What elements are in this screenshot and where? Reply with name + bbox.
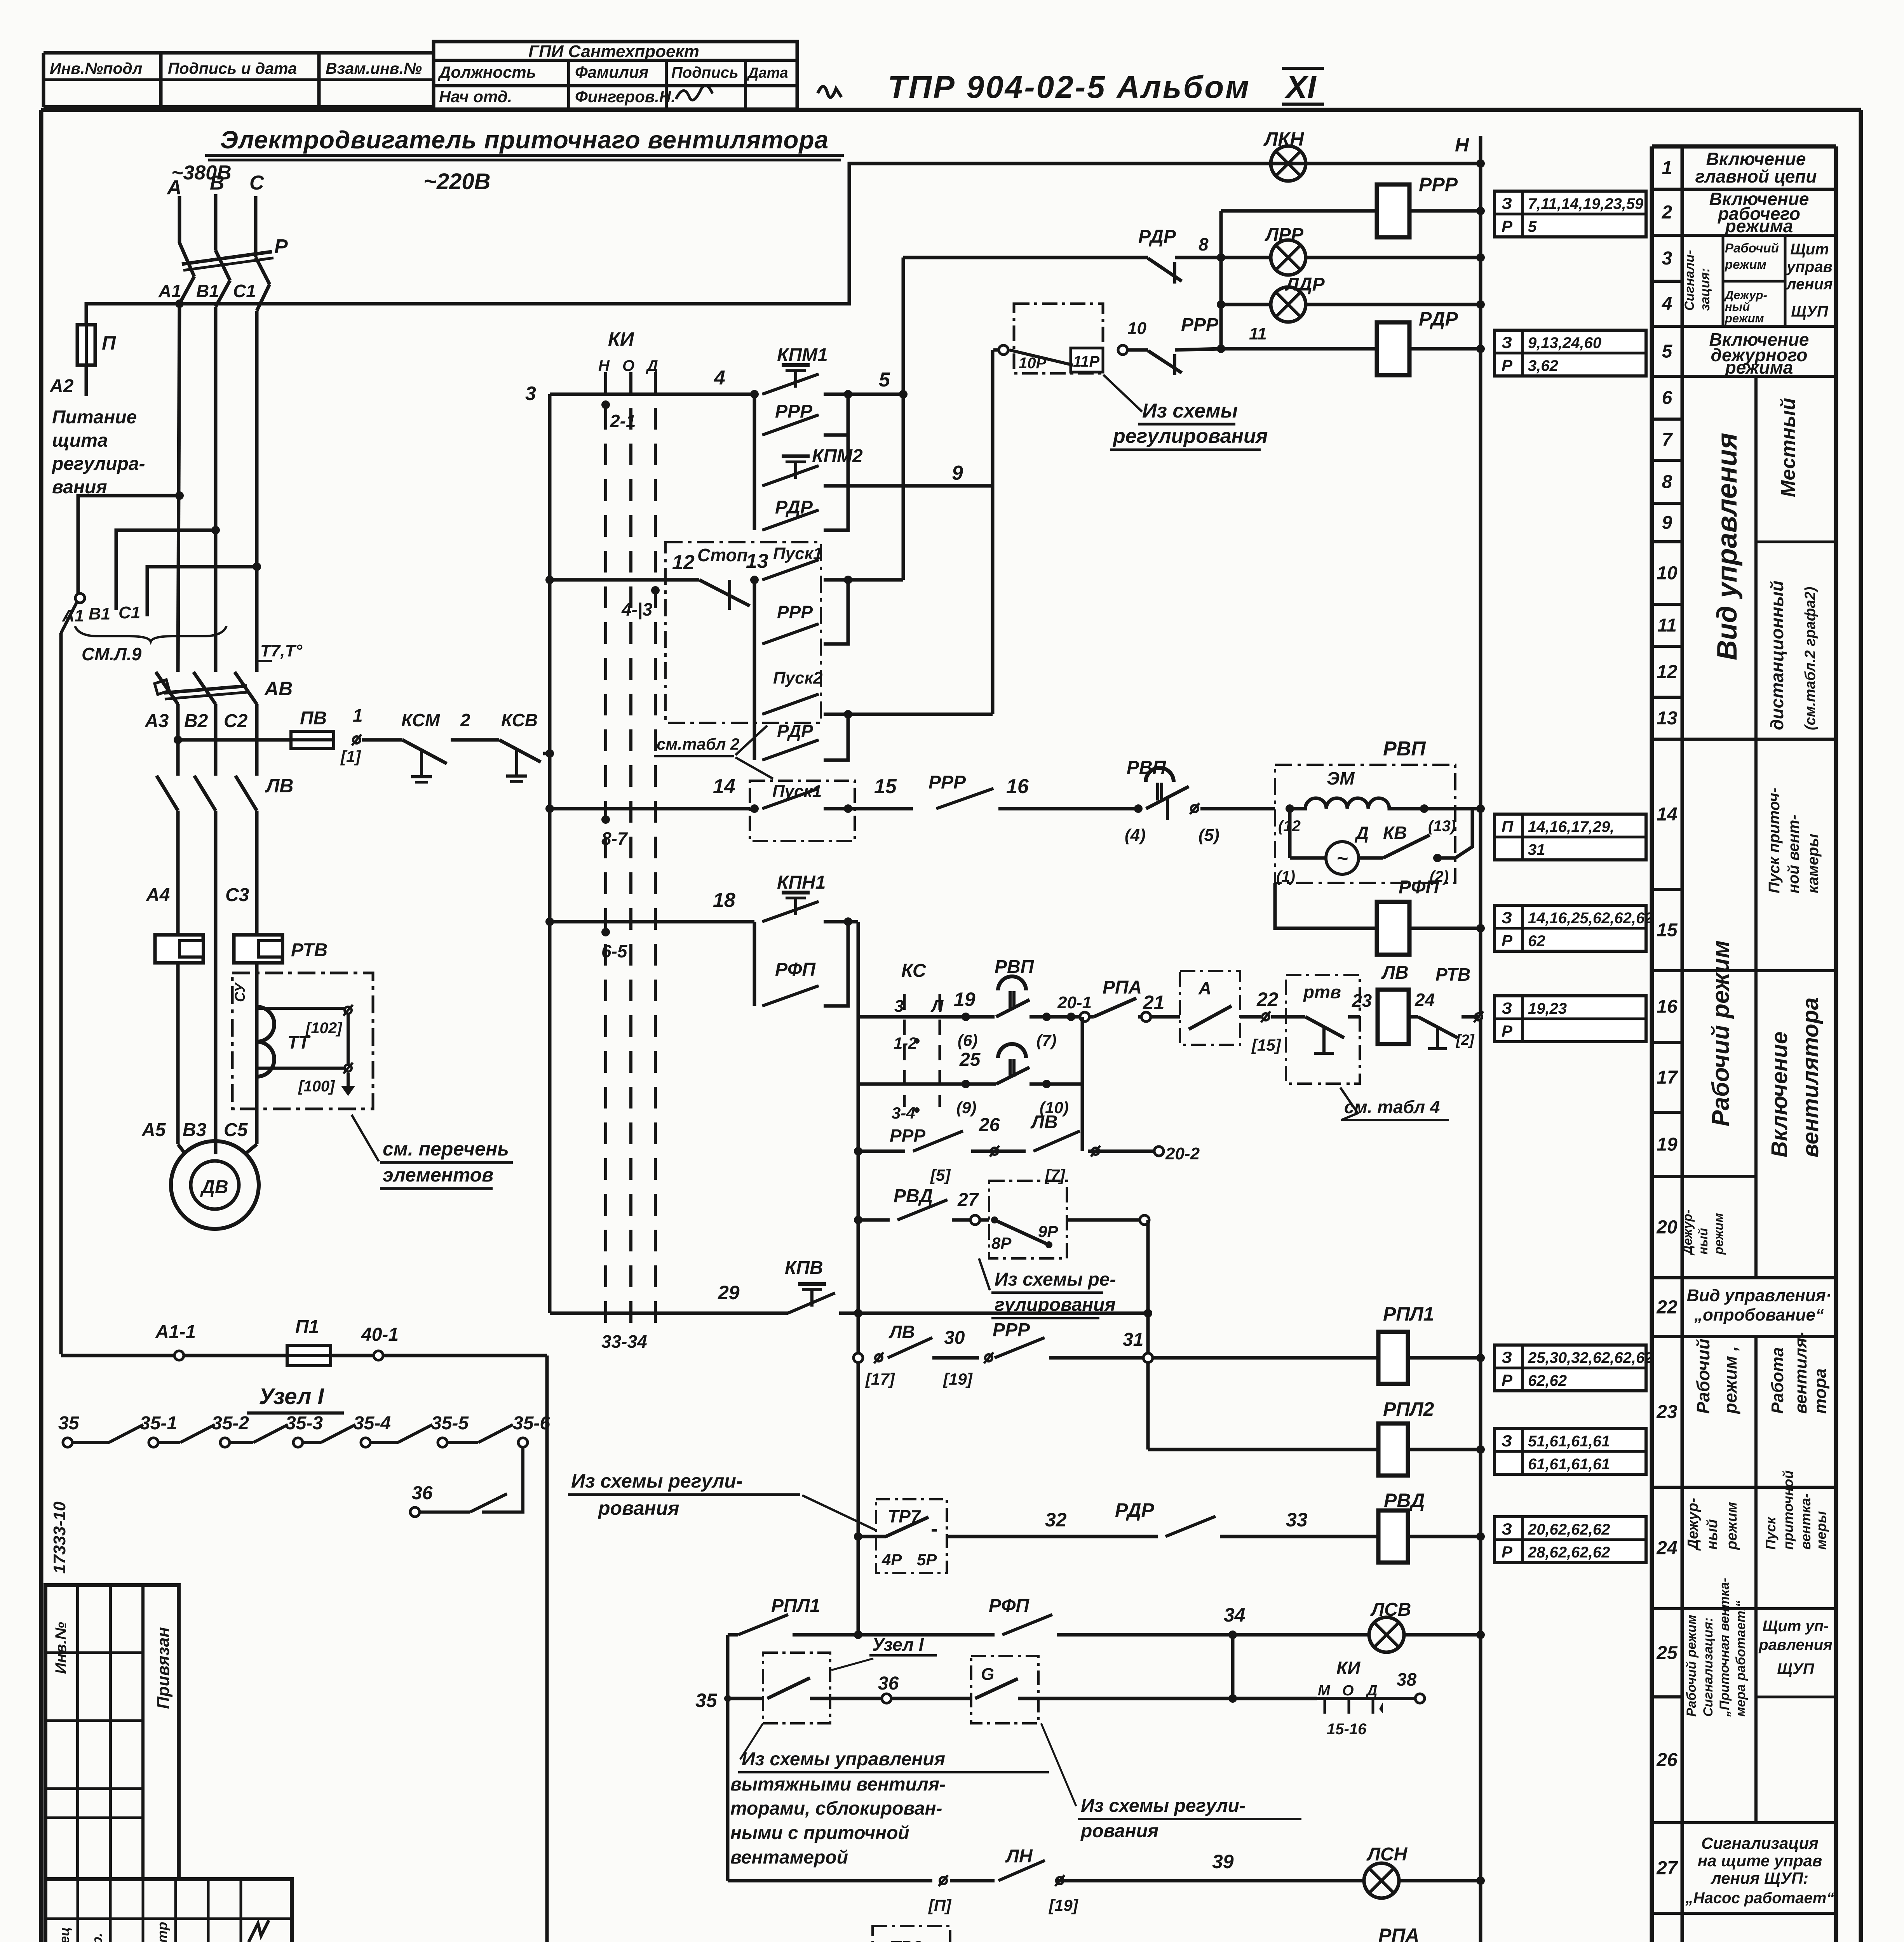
terminals 8P 9P box: [989, 1181, 1067, 1258]
mode table right side: [1650, 146, 1654, 1942]
svg-text:9: 9: [1662, 513, 1672, 533]
device rtv box with t-contact: [1286, 975, 1360, 1084]
svg-text:Л: Л: [930, 997, 944, 1016]
svg-text:РДР: РДР: [1419, 308, 1458, 330]
svg-text:6-5: 6-5: [601, 941, 628, 961]
svg-text:С2: С2: [224, 711, 248, 731]
svg-text:35-5: 35-5: [431, 1413, 469, 1434]
svg-text:КПН1: КПН1: [777, 872, 826, 893]
svg-text:РФП: РФП: [1399, 877, 1439, 898]
fuse P supply: [77, 325, 95, 365]
RVP motor D: [1288, 809, 1292, 858]
svg-text:6: 6: [1662, 388, 1672, 408]
svg-text:В1: В1: [89, 604, 110, 623]
svg-text:33-34: 33-34: [601, 1331, 647, 1352]
svg-text:Р: Р: [1502, 217, 1513, 235]
svg-text:З: З: [1502, 333, 1512, 352]
svg-text:на щите управ: на щите управ: [1698, 1852, 1822, 1870]
svg-text:20-2: 20-2: [1165, 1144, 1200, 1163]
svg-text:27: 27: [957, 1190, 979, 1210]
tap A1 wire: [78, 496, 179, 595]
svg-text:[102]: [102]: [305, 1020, 343, 1037]
svg-text:2: 2: [460, 710, 470, 730]
svg-text:9: 9: [952, 462, 963, 484]
svg-text:Сигнали-: Сигнали-: [1682, 250, 1697, 311]
svg-text:Рабочий режим: Рабочий режим: [1684, 1615, 1699, 1717]
svg-text:Н: Н: [598, 357, 610, 374]
svg-text:23: 23: [1352, 990, 1372, 1011]
svg-text:51,61,61,61: 51,61,61,61: [1528, 1433, 1610, 1450]
svg-text:РДР: РДР: [1115, 1499, 1155, 1521]
svg-text:39: 39: [1212, 1851, 1234, 1872]
circuit breaker AV: [156, 672, 178, 704]
svg-text:(6): (6): [958, 1031, 977, 1049]
svg-text:5: 5: [1528, 218, 1537, 235]
svg-text:З: З: [1502, 1432, 1512, 1450]
svg-text:61,61,61,61: 61,61,61,61: [1528, 1456, 1610, 1473]
svg-text:Т7,Т°: Т7,Т°: [260, 641, 302, 660]
svg-text:12: 12: [672, 551, 695, 574]
svg-text:1-2: 1-2: [894, 1034, 917, 1052]
svg-text:рования: рования: [1080, 1821, 1158, 1841]
contact RRR no: [1127, 348, 1148, 352]
svg-text:Нач отд.: Нач отд.: [439, 87, 512, 106]
svg-text:62: 62: [1528, 933, 1545, 950]
svg-text:7,11,14,19,23,59: 7,11,14,19,23,59: [1528, 195, 1644, 212]
TT winding: [257, 1007, 274, 1077]
svg-text:15-16: 15-16: [1327, 1721, 1367, 1738]
svg-text:ПВ: ПВ: [300, 708, 327, 729]
svg-text:11: 11: [1657, 615, 1677, 636]
svg-text:Р: Р: [1502, 1371, 1513, 1389]
svg-text:1: 1: [353, 705, 363, 726]
svg-text:Питание: Питание: [52, 407, 137, 428]
N bus vertical: [1479, 136, 1482, 1942]
svg-text:РПЛ1: РПЛ1: [771, 1596, 820, 1616]
svg-text:(1): (1): [1276, 868, 1295, 885]
svg-text:Д: Д: [1354, 823, 1369, 843]
svg-text:[17]: [17]: [865, 1370, 895, 1388]
svg-text:Должность: Должность: [438, 63, 536, 81]
svg-text:ГПИ Сантехпроект: ГПИ Сантехпроект: [528, 42, 699, 61]
svg-text:Сигнализация: Сигнализация: [1701, 1834, 1819, 1852]
svg-text:23: 23: [1656, 1402, 1678, 1422]
svg-text:Д: Д: [1366, 1683, 1377, 1699]
svg-text:приточной: приточной: [1780, 1470, 1796, 1550]
TT ground arrow: [347, 1073, 350, 1086]
svg-text:5: 5: [1662, 341, 1673, 362]
KI dashed verticals: [604, 372, 607, 1331]
TR2 TR3 box: [873, 1926, 950, 1942]
svg-text:15: 15: [1657, 920, 1678, 941]
svg-text:1: 1: [1662, 158, 1672, 178]
svg-text:Узел I: Узел I: [259, 1384, 324, 1409]
svg-text:А1: А1: [158, 281, 181, 301]
svg-text:26: 26: [1656, 1750, 1678, 1770]
rung 12 13 stop pusk1: [550, 578, 699, 582]
svg-text:А5: А5: [141, 1120, 166, 1140]
svg-text:РРР: РРР: [777, 602, 813, 622]
svg-text:62,62: 62,62: [1528, 1372, 1567, 1389]
svg-text:КИ: КИ: [1336, 1658, 1360, 1678]
svg-text:П1: П1: [295, 1317, 319, 1337]
svg-text:М: М: [1318, 1683, 1331, 1699]
svg-text:КПМ1: КПМ1: [777, 345, 828, 365]
svg-text:Вид управления·: Вид управления·: [1687, 1286, 1832, 1305]
svg-text:27: 27: [1656, 1858, 1678, 1879]
disconnect switch R: [179, 243, 194, 277]
disconnect blade to node I wire: [75, 593, 85, 603]
svg-text:19: 19: [954, 988, 976, 1010]
svg-text:(9): (9): [956, 1098, 976, 1117]
svg-text:(13): (13): [1428, 818, 1456, 835]
svg-text:(5): (5): [1198, 826, 1219, 845]
left rail 1: [548, 394, 552, 1313]
svg-text:Местный: Местный: [1777, 398, 1799, 497]
annotation circuit 23a: [1495, 1345, 1646, 1391]
annotation circuit 23b: [1495, 1429, 1646, 1474]
svg-text:ДВ: ДВ: [200, 1177, 228, 1197]
svg-text:Гл.спец: Гл.спец: [56, 1927, 72, 1942]
svg-text:А2: А2: [49, 376, 74, 397]
svg-text:40-1: 40-1: [361, 1324, 399, 1345]
svg-text:Рабочий: Рабочий: [1725, 241, 1779, 255]
svg-text:В3: В3: [183, 1120, 207, 1140]
left vertical to 35: [726, 1635, 730, 1698]
vertical 2946 to RPL1 rung: [1146, 1220, 1150, 1450]
svg-text:О: О: [622, 357, 634, 374]
svg-text:4: 4: [1662, 294, 1672, 314]
svg-text:З: З: [1502, 1348, 1512, 1366]
svg-text:31: 31: [1123, 1329, 1143, 1350]
bus C from reg terminals: [993, 348, 999, 352]
svg-text:РПЛ2: РПЛ2: [1383, 1398, 1434, 1420]
svg-text:ЛВ: ЛВ: [265, 775, 293, 797]
svg-text:Р: Р: [1502, 1022, 1513, 1040]
svg-text:32: 32: [1045, 1509, 1067, 1531]
svg-text:ТПР 904-02-5 Альбом: ТПР 904-02-5 Альбом: [888, 70, 1251, 105]
svg-text:зация:: зация:: [1698, 268, 1712, 311]
svg-text:А: А: [1198, 978, 1211, 998]
svg-text:щита: щита: [52, 430, 108, 451]
rung 32 TR7 RDR RVD coil: [854, 1532, 862, 1541]
rung PV fuse KSM KSV: [178, 738, 291, 742]
svg-text:рования: рования: [598, 1497, 679, 1519]
svg-text:20: 20: [1656, 1217, 1678, 1238]
contact RDR nc: [903, 256, 1148, 259]
terminals from regulation scheme 10P 11P: [999, 345, 1008, 355]
svg-text:режим: режим: [1725, 257, 1766, 271]
svg-text:Фамилия: Фамилия: [575, 63, 648, 81]
annotation circuit 16: [1495, 996, 1646, 1042]
svg-text:8: 8: [1198, 234, 1209, 254]
svg-text:20-1: 20-1: [1057, 993, 1092, 1012]
svg-text:З: З: [1502, 1520, 1512, 1538]
svg-text:4: 4: [714, 367, 725, 389]
svg-text:режим: режим: [1711, 1213, 1726, 1255]
svg-text:4Р: 4Р: [881, 1550, 902, 1569]
svg-text:33: 33: [1286, 1509, 1308, 1531]
rung A1-1 P1 40-1: [61, 1354, 547, 1357]
svg-text:[2]: [2]: [1456, 1032, 1475, 1048]
relay coil RRR: [1221, 209, 1377, 213]
bus B vertical: [902, 258, 905, 580]
title block left edge: [45, 1585, 179, 1879]
svg-text:П: П: [1502, 817, 1514, 835]
svg-text:дистанционный: дистанционный: [1767, 581, 1787, 730]
annotation circuit 5: [1495, 330, 1646, 376]
svg-text:вентиля-: вентиля-: [1791, 1332, 1810, 1414]
svg-text:4-|3: 4-|3: [621, 599, 653, 619]
svg-text:8: 8: [1662, 472, 1672, 492]
svg-text:(4): (4): [1125, 826, 1146, 845]
G box contact: [971, 1656, 1038, 1723]
svg-text:17: 17: [1657, 1067, 1678, 1088]
svg-text:Дежур-: Дежур-: [1680, 1209, 1695, 1256]
svg-text:меры: меры: [1813, 1511, 1829, 1550]
svg-text:А4: А4: [146, 885, 170, 905]
svg-text:С1: С1: [233, 281, 256, 301]
svg-text:35: 35: [695, 1690, 718, 1711]
svg-text:14: 14: [713, 775, 735, 798]
svg-text:Взам.инв.№: Взам.инв.№: [326, 59, 422, 77]
svg-text:режим: режим: [1724, 1502, 1740, 1550]
svg-text:КСМ: КСМ: [401, 710, 441, 730]
rung 25 RVP: [857, 1017, 860, 1084]
svg-text:РДР: РДР: [777, 721, 813, 741]
svg-text:12: 12: [1657, 662, 1678, 682]
svg-text:25: 25: [959, 1049, 981, 1070]
svg-text:С3: С3: [225, 885, 249, 905]
svg-text:29: 29: [718, 1282, 740, 1303]
svg-text:РФП: РФП: [989, 1596, 1030, 1616]
brace see sheet 9: [75, 626, 226, 642]
svg-text:24: 24: [1656, 1538, 1677, 1559]
svg-text:13: 13: [1657, 708, 1678, 729]
rail uzel side: [545, 1356, 549, 1942]
svg-text:2: 2: [1662, 202, 1672, 223]
svg-text:Вид управления: Вид управления: [1712, 433, 1743, 660]
svg-text:Из схемы ре-: Из схемы ре-: [995, 1269, 1116, 1290]
svg-text:А: А: [166, 176, 182, 199]
svg-text:36: 36: [412, 1483, 433, 1503]
TT secondary terminals: [257, 1008, 348, 1068]
svg-text:РРР: РРР: [1419, 174, 1458, 195]
svg-text:ЛДР: ЛДР: [1285, 274, 1325, 295]
svg-text:ЛВ: ЛВ: [1030, 1112, 1058, 1133]
svg-text:Щит: Щит: [1790, 241, 1829, 258]
svg-text:Из схемы: Из схемы: [1142, 400, 1238, 422]
svg-text:вентка-: вентка-: [1798, 1493, 1813, 1550]
svg-text:16: 16: [1006, 775, 1029, 798]
time relay RVP box: [1275, 765, 1455, 883]
svg-text:Н: Н: [1455, 134, 1469, 156]
annotation circuit 24: [1495, 1517, 1646, 1563]
svg-text:8-7: 8-7: [601, 828, 628, 849]
svg-text:24: 24: [1414, 990, 1435, 1010]
svg-text:вентилятора: вентилятора: [1798, 997, 1823, 1157]
svg-text:тора: тора: [1811, 1368, 1830, 1414]
svg-text:Д: Д: [646, 357, 658, 374]
svg-text:[15]: [15]: [1251, 1036, 1282, 1054]
svg-text:Электродвигатель приточнаго ве: Электродвигатель приточнаго вентилятора: [220, 126, 829, 154]
svg-text:38: 38: [1397, 1669, 1417, 1690]
svg-text:РВП: РВП: [1383, 738, 1426, 760]
wire phase A top: [178, 196, 181, 243]
svg-text:15: 15: [874, 775, 897, 798]
svg-text:3-4: 3-4: [892, 1104, 915, 1122]
top control bus: [86, 164, 1481, 325]
svg-text:В1: В1: [196, 281, 219, 301]
svg-text:Дата: Дата: [747, 65, 788, 81]
wire fuse down: [85, 365, 88, 396]
rung 14 pusk1 RRR 16 RVP: [550, 807, 750, 811]
bus C vertical: [991, 350, 995, 714]
svg-text:[5]: [5]: [930, 1166, 951, 1184]
svg-text:РДР: РДР: [1138, 226, 1176, 247]
svg-text:РПЛ1: РПЛ1: [1383, 1303, 1434, 1325]
svg-text:П: П: [102, 332, 116, 354]
svg-text:режима: режима: [1725, 216, 1793, 236]
svg-text:РФП: РФП: [775, 959, 816, 980]
svg-text:(см.табл.2 графа2): (см.табл.2 графа2): [1802, 587, 1819, 730]
rung 27 RVD 8P 9P: [854, 1216, 862, 1224]
rung 26 RRR LV: [858, 1150, 905, 1153]
svg-text:Работа: Работа: [1768, 1347, 1787, 1414]
svg-text:ЛСН: ЛСН: [1366, 1844, 1408, 1865]
svg-text:2-1: 2-1: [610, 411, 636, 431]
svg-text:„опробование“: „опробование“: [1694, 1305, 1824, 1324]
svg-text:Подпись и дата: Подпись и дата: [168, 59, 297, 77]
svg-text:КПМ2: КПМ2: [812, 446, 863, 466]
svg-text:режим: режим: [1725, 311, 1764, 325]
wires heaters to motor: [176, 963, 180, 1144]
link 20-1 to 20-2 vertical: [1081, 1017, 1084, 1151]
device A box: [1180, 971, 1240, 1045]
svg-text:Рук гр.: Рук гр.: [89, 1933, 105, 1942]
svg-text:[П]: [П]: [928, 1896, 952, 1914]
svg-text:10: 10: [1127, 319, 1146, 338]
rung 31 LV RRR RPL1 coil: [854, 1353, 863, 1363]
svg-text:Рабочий: Рабочий: [1693, 1338, 1713, 1414]
svg-text:З: З: [1502, 194, 1512, 212]
svg-text:Стоп: Стоп: [697, 545, 748, 565]
vertical link lamps block: [1219, 211, 1223, 349]
svg-text:~: ~: [1336, 847, 1348, 869]
vertical 34 to 36: [1231, 1635, 1235, 1698]
svg-text:7: 7: [1662, 430, 1673, 450]
svg-text:вентамерой: вентамерой: [730, 1847, 848, 1868]
svg-text:14,16,17,29,: 14,16,17,29,: [1528, 818, 1614, 835]
svg-text:11Р: 11Р: [1073, 353, 1100, 370]
svg-text:В2: В2: [184, 711, 208, 731]
svg-text:КВ: КВ: [1383, 823, 1407, 843]
rung 39 LN LSN lamp: [726, 1698, 730, 1881]
svg-text:Инв.№: Инв.№: [52, 1622, 70, 1674]
svg-text:ными с приточной: ными с приточной: [730, 1823, 909, 1843]
svg-text:35-4: 35-4: [354, 1413, 391, 1434]
svg-text:ный: ный: [1704, 1519, 1721, 1550]
svg-text:35-6: 35-6: [513, 1413, 550, 1434]
svg-text:ной вент-: ной вент-: [1785, 814, 1802, 893]
motor DV: [178, 1144, 185, 1154]
svg-text:РВД: РВД: [1384, 1490, 1425, 1511]
svg-text:[1]: [1]: [340, 747, 361, 766]
node PV rung: [174, 736, 182, 744]
svg-text:Узел I: Узел I: [872, 1634, 924, 1655]
svg-text:30: 30: [944, 1328, 965, 1348]
svg-text:(7): (7): [1036, 1031, 1056, 1049]
svg-text:режима: режима: [1725, 357, 1793, 378]
svg-text:Из схемы регули-: Из схемы регули-: [1081, 1796, 1246, 1816]
svg-text:ЭМ: ЭМ: [1327, 768, 1355, 788]
time push RVP rung25: [998, 1044, 1026, 1058]
wire phase C top: [254, 196, 258, 257]
svg-text:РТВ: РТВ: [291, 940, 327, 961]
svg-text:Подпись: Подпись: [671, 64, 739, 81]
svg-text:РВД: РВД: [894, 1186, 933, 1206]
svg-text:ртв: ртв: [1303, 982, 1341, 1002]
svg-text:10: 10: [1657, 563, 1678, 584]
svg-text:А3: А3: [145, 711, 169, 731]
svg-text:регулира-: регулира-: [51, 454, 145, 474]
svg-text:[19]: [19]: [1048, 1896, 1079, 1914]
svg-text:3,62: 3,62: [1528, 357, 1558, 374]
svg-text:20,62,62,62: 20,62,62,62: [1528, 1521, 1610, 1538]
svg-text:31: 31: [1528, 841, 1545, 858]
svg-text:Пуск: Пуск: [1763, 1516, 1779, 1550]
svg-text:РРР: РРР: [928, 772, 966, 793]
annotation circuit 15: [1495, 905, 1646, 951]
annotation circuit 2: [1495, 191, 1646, 237]
svg-text:Дежур-: Дежур-: [1685, 1498, 1701, 1551]
svg-text:СУ: СУ: [232, 982, 248, 1002]
svg-text:ления: ления: [1786, 276, 1833, 293]
svg-text:Пуск приточ-: Пуск приточ-: [1766, 788, 1783, 893]
svg-text:мера работает.“: мера работает.“: [1733, 1601, 1748, 1717]
header stamp table GPI Santehproekt: [434, 42, 797, 109]
svg-text:Р: Р: [1502, 931, 1513, 950]
svg-text:РПА: РПА: [1103, 977, 1142, 998]
svg-text:СМ.Л.9: СМ.Л.9: [82, 644, 142, 664]
contact stop nc: [699, 580, 750, 606]
svg-text:ЩУП: ЩУП: [1791, 303, 1829, 320]
svg-text:28,62,62,62: 28,62,62,62: [1528, 1544, 1610, 1561]
svg-text:АВ: АВ: [264, 678, 293, 700]
svg-text:КС: КС: [901, 961, 927, 981]
svg-text:см.табл 2: см.табл 2: [657, 735, 739, 753]
svg-text:„Насос работает“: „Насос работает“: [1685, 1890, 1834, 1907]
svg-text:5Р: 5Р: [917, 1550, 937, 1569]
svg-text:РВП: РВП: [995, 957, 1035, 977]
svg-text:21: 21: [1143, 992, 1165, 1013]
svg-text:Включение: Включение: [1767, 1032, 1792, 1157]
svg-text:С: С: [249, 172, 265, 194]
svg-text:[100]: [100]: [298, 1078, 335, 1095]
wire phases to AV breaker: [179, 277, 194, 304]
svg-text:Фингеров.Н.: Фингеров.Н.: [575, 87, 676, 106]
svg-text:ЛН: ЛН: [1005, 1846, 1033, 1867]
svg-text:26: 26: [979, 1115, 1000, 1135]
tap C1 wire: [147, 567, 257, 616]
uzel I contact chain 35..35-6: [63, 1438, 72, 1447]
svg-text:3: 3: [894, 997, 904, 1016]
rung 9 wire: [848, 484, 993, 488]
svg-text:Рабочий режим: Рабочий режим: [1707, 940, 1734, 1126]
svg-text:С1: С1: [118, 603, 140, 622]
svg-text:14: 14: [1657, 804, 1677, 825]
svg-text:Щит уп-: Щит уп-: [1763, 1618, 1829, 1635]
